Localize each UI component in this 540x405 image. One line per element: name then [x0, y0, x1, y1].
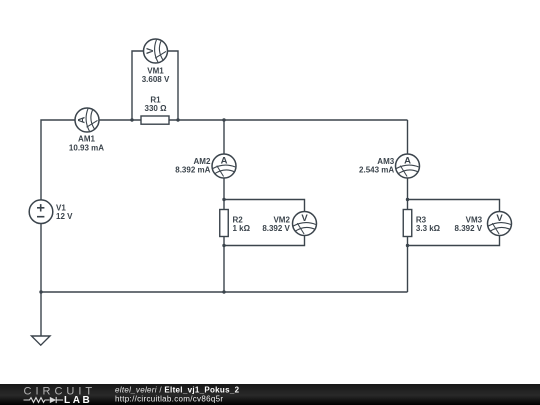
wire: AM2 to R2 top junction — [223, 178, 225, 200]
ammeter AM1 — [75, 108, 99, 132]
svg-text:eltel_veleri / Eltel_vj1_Pokus: eltel_veleri / Eltel_vj1_Pokus_2 — [115, 386, 240, 395]
svg-text:10.93 mA: 10.93 mA — [69, 143, 104, 152]
svg-text:12 V: 12 V — [56, 212, 73, 221]
ammeter AM3 — [396, 154, 420, 178]
node: VM1 right tap — [176, 118, 179, 121]
logo circuit glyph: wire, resistor zigzag, diode — [24, 397, 64, 403]
wire: bottom bus — [41, 291, 408, 293]
svg-text:3.3 kΩ: 3.3 kΩ — [416, 224, 441, 233]
node: VM1 left tap — [130, 118, 133, 121]
footer bar — [0, 384, 540, 405]
voltage source V1 — [29, 200, 53, 224]
svg-text:2.543 mA: 2.543 mA — [359, 165, 394, 174]
voltmeter VM1 — [144, 39, 168, 63]
wire: AM1 right to VM1-left junction — [99, 119, 141, 121]
wire: VM1 loop right vertical — [168, 51, 179, 120]
wire: V1 bottom to ground node — [40, 224, 42, 293]
svg-text:8.392 V: 8.392 V — [262, 224, 290, 233]
node: AM2 branch tap — [222, 118, 225, 121]
wire: R2 bottom junction down to bottom bus — [223, 246, 225, 293]
wire: R2 top lead — [223, 200, 225, 210]
node: middle bottom tap — [222, 290, 225, 293]
wire: R3 leads and drop to bottom bus — [407, 200, 409, 210]
node: R2 top — [222, 198, 225, 201]
svg-text:330 Ω: 330 Ω — [145, 104, 168, 113]
voltmeter VM3 — [488, 212, 512, 236]
resistor R1 — [141, 116, 169, 124]
svg-text:http://circuitlab.com/cv86q5r: http://circuitlab.com/cv86q5r — [115, 395, 223, 404]
wire: R2 bottom lead — [223, 237, 225, 246]
svg-text:1 kΩ: 1 kΩ — [233, 224, 251, 233]
svg-text:3.608 V: 3.608 V — [142, 75, 170, 84]
resistor R3 — [403, 210, 412, 237]
node: R2 bottom — [222, 244, 225, 247]
svg-text:LAB: LAB — [64, 395, 92, 405]
wire: AM2 branch upper — [223, 120, 225, 154]
node: ground tap — [39, 290, 42, 293]
resistor R2 — [220, 210, 229, 237]
svg-text:8.392 V: 8.392 V — [455, 224, 483, 233]
wire: VM2 loop bottom — [224, 236, 305, 246]
wire: VM1 loop left vertical — [132, 51, 144, 120]
wire: top main wire segments — [41, 120, 75, 200]
wire: ground stem — [40, 292, 42, 336]
ammeter AM2 — [212, 154, 236, 178]
wire: AM3 branch upper — [407, 120, 409, 154]
wire: VM3 loop bottom — [408, 236, 500, 246]
wire: AM3 to R3 top junction — [407, 178, 409, 200]
svg-text:8.392 mA: 8.392 mA — [175, 165, 210, 174]
wire: VM2 loop top — [224, 200, 305, 212]
ground — [32, 336, 51, 345]
wire: VM3 loop top — [408, 200, 500, 212]
node: R3 bottom — [406, 244, 409, 247]
node: R3 top — [406, 198, 409, 201]
voltmeter VM2 — [293, 212, 317, 236]
wire: R1 right lead to AM2 branch and to AM3 corner — [169, 119, 408, 121]
